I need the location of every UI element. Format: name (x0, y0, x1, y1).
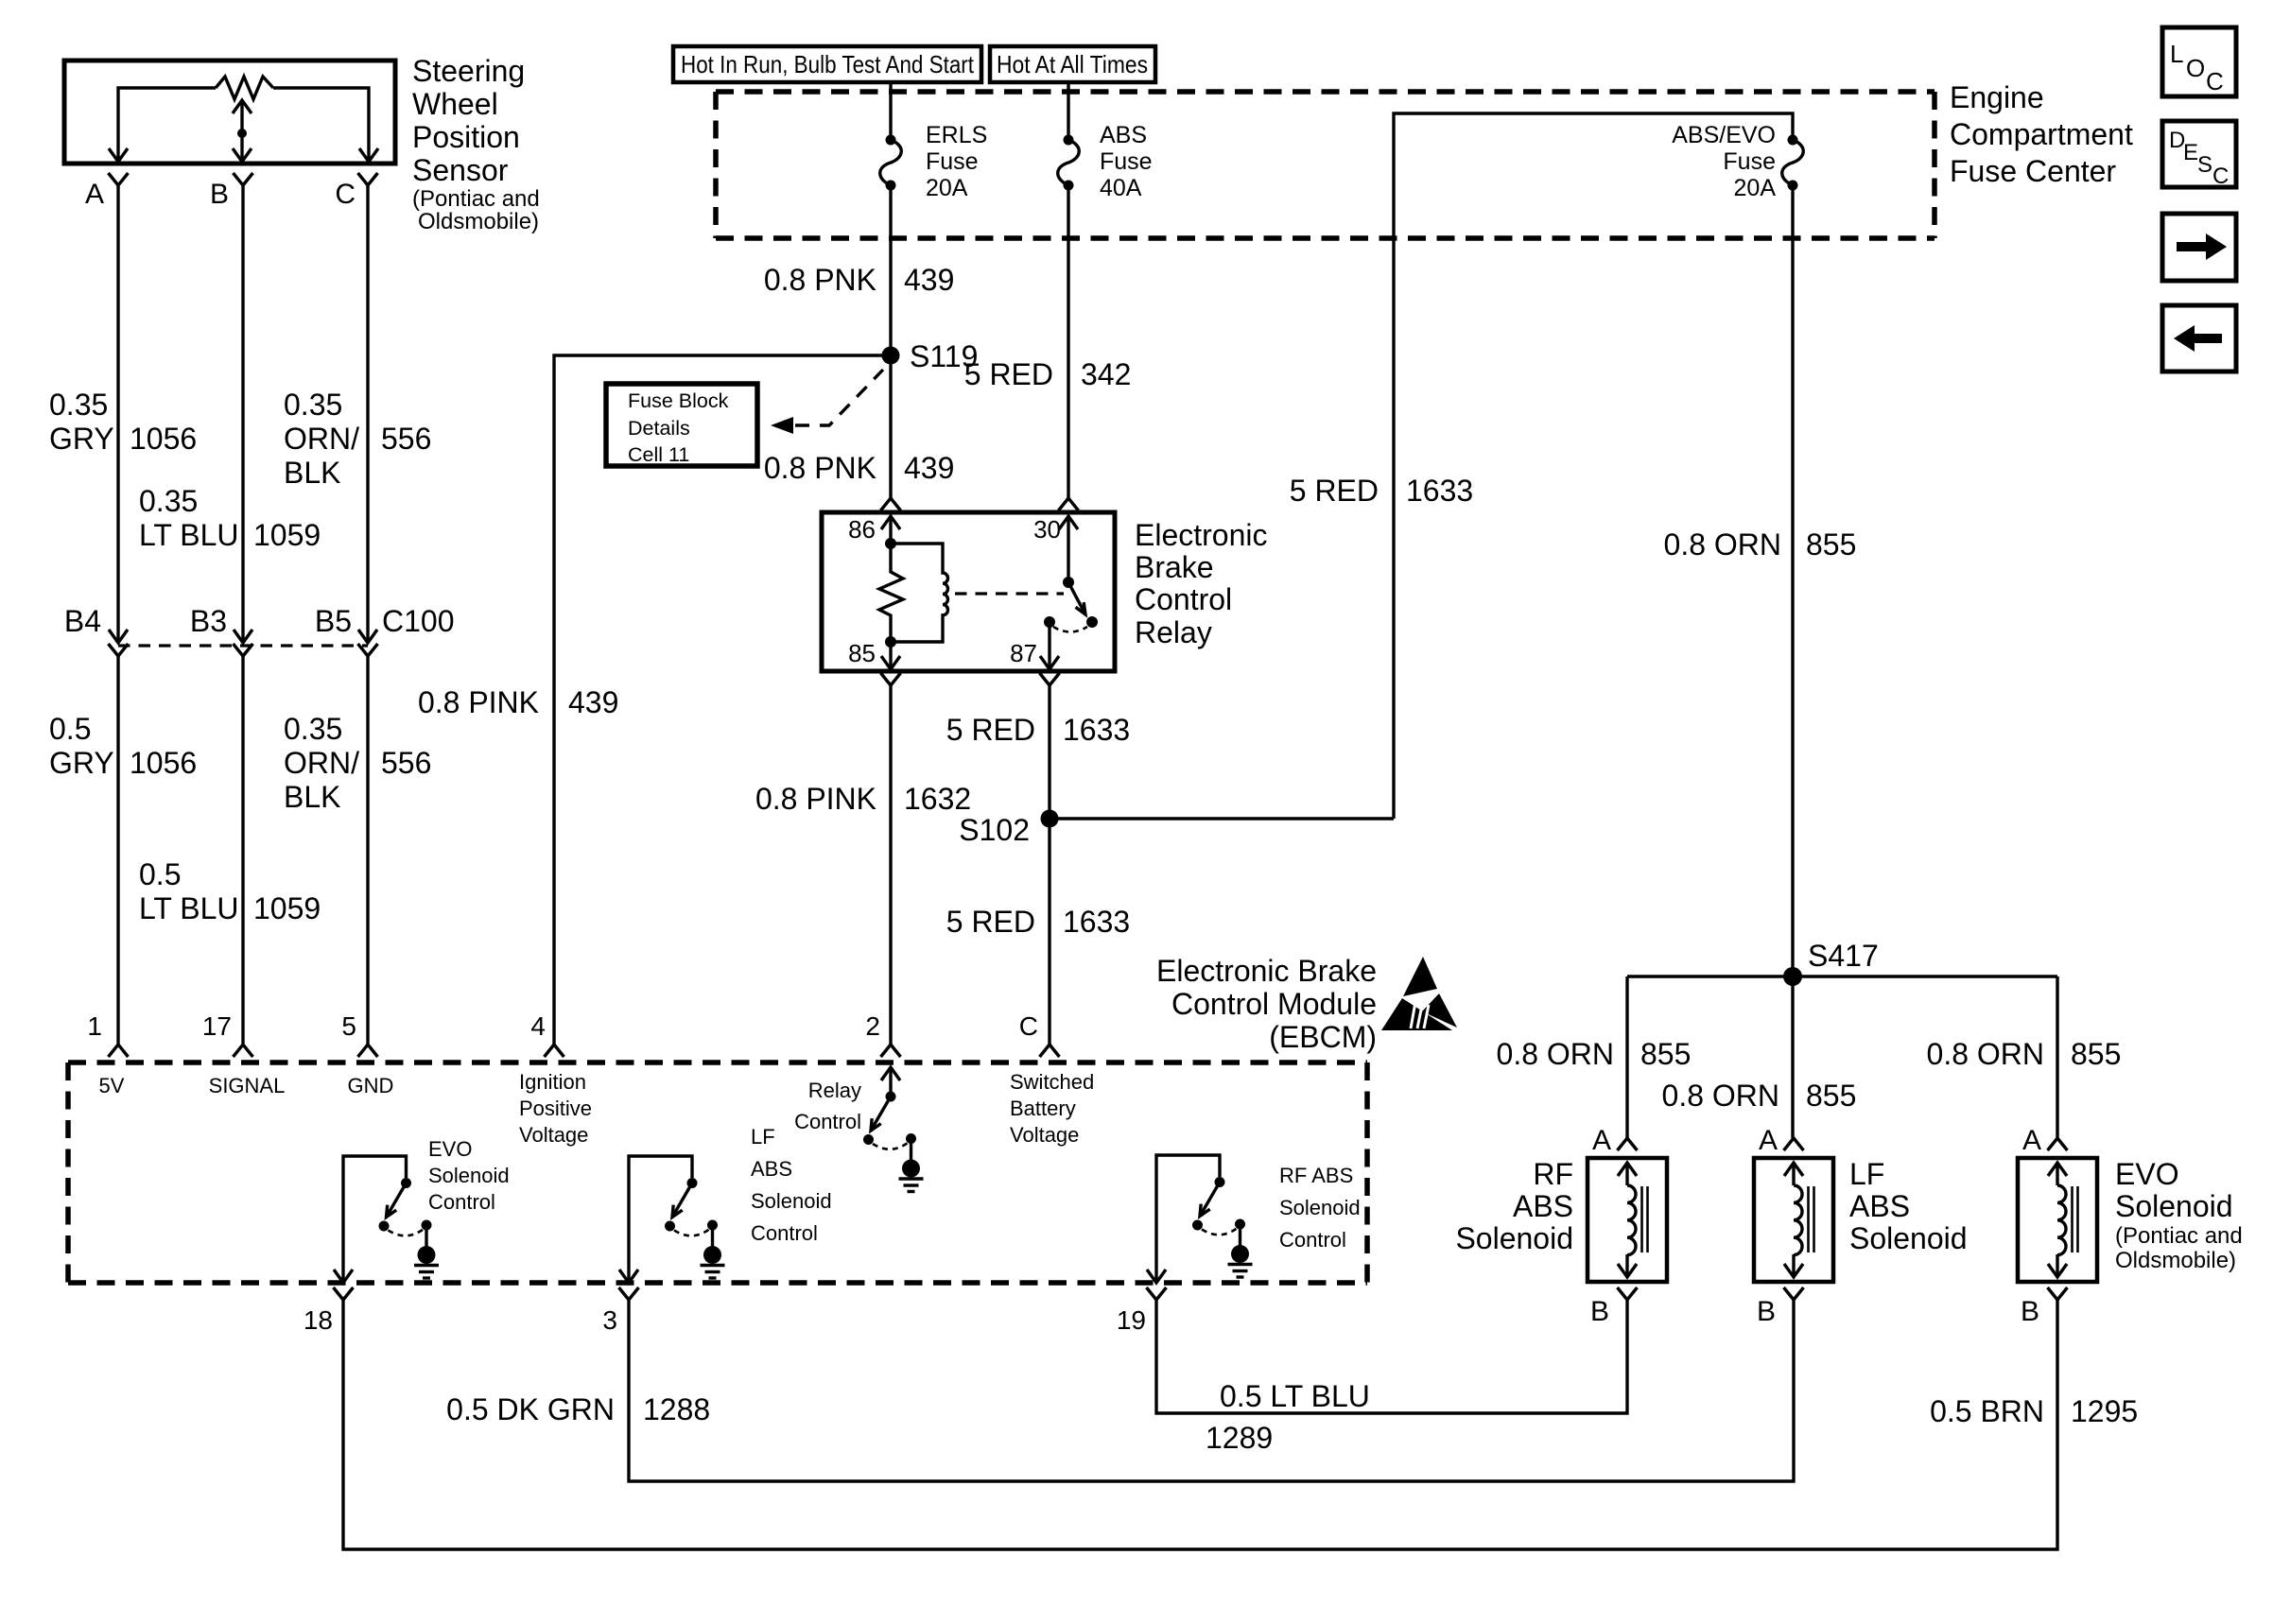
svg-text:2: 2 (865, 1011, 880, 1041)
svg-text:Solenoid: Solenoid (1849, 1221, 1968, 1255)
relay contact travel dashed arc (1053, 627, 1087, 632)
SWPS terminal arrow A (109, 148, 128, 162)
svg-text:Relay: Relay (1135, 615, 1212, 649)
svg-text:0.8 ORN: 0.8 ORN (1497, 1037, 1614, 1071)
wire label 0.8 ORN 855 (LF) (1662, 1079, 1857, 1113)
relay control switch inside EBCM (863, 1067, 924, 1192)
svg-text:Control: Control (1135, 582, 1232, 616)
svg-text:439: 439 (904, 263, 954, 297)
SWPS connector fork A (109, 173, 129, 185)
pin 4 name Ignition Positive Voltage (519, 1070, 592, 1147)
EBCM label text (1156, 954, 1377, 1054)
wire label 0.8 ORN 855 (fuse drop) (1664, 527, 1857, 561)
svg-text:Hot In Run, Bulb Test And Star: Hot In Run, Bulb Test And Start (681, 50, 975, 78)
svg-text:Control: Control (794, 1110, 861, 1133)
wire label 5 RED 1633 (branch) (1290, 474, 1473, 508)
svg-text:Positive: Positive (519, 1097, 592, 1120)
svg-text:0.8 PINK: 0.8 PINK (418, 685, 539, 719)
svg-text:Control: Control (428, 1190, 495, 1214)
svg-text:Solenoid: Solenoid (1455, 1221, 1573, 1255)
EVO solenoid control label (428, 1137, 510, 1214)
EVO solenoid pin A fork (2048, 1138, 2068, 1150)
RF ABS solenoid box (1588, 1158, 1667, 1282)
svg-text:439: 439 (904, 451, 954, 485)
svg-text:1288: 1288 (643, 1392, 710, 1426)
ERLS fuse label (926, 122, 987, 201)
ABS/EVO fuse 20A (1782, 135, 1804, 191)
svg-text:RF: RF (1533, 1157, 1573, 1191)
svg-text:20A: 20A (1734, 175, 1777, 201)
relay label text (1135, 518, 1268, 649)
svg-text:BLK: BLK (284, 456, 340, 490)
svg-text:Details: Details (628, 417, 690, 440)
svg-text:C: C (335, 179, 356, 210)
SWPS wiper arm (233, 100, 252, 162)
svg-text:LF: LF (1849, 1157, 1884, 1191)
ERLS fuse 20A (880, 135, 902, 191)
svg-text:Compartment: Compartment (1950, 117, 2133, 151)
DESC icon box (2162, 121, 2236, 189)
wire label 0.5 GRY 1056 (49, 712, 197, 780)
wire: Hot At All Times feed down to ABS fuse (1067, 82, 1069, 137)
relay pin 85 arrow (881, 642, 900, 669)
svg-text:GRY: GRY (49, 746, 114, 780)
wire: S102 branch to fuse center (1050, 817, 1394, 820)
LF ABS solenoid box (1754, 1158, 1833, 1282)
EVO solenoid label (2115, 1157, 2243, 1273)
wire B arrow at C100 (234, 630, 252, 643)
EVO solenoid pin B fork (2048, 1287, 2068, 1300)
relay control label (794, 1079, 861, 1133)
svg-text:0.8 ORN: 0.8 ORN (1662, 1079, 1779, 1113)
EBCM pin 5 fork (358, 1045, 378, 1057)
svg-text:855: 855 (2071, 1037, 2121, 1071)
svg-text:C100: C100 (382, 604, 455, 638)
wire label 0.8 PNK 439 (upper) (764, 263, 955, 297)
svg-text:855: 855 (1806, 1079, 1856, 1113)
svg-text:SIGNAL: SIGNAL (209, 1074, 286, 1097)
svg-text:B: B (1590, 1296, 1609, 1327)
relay actuation dashed link (955, 592, 1064, 595)
svg-text:GND: GND (348, 1074, 394, 1097)
svg-text:B: B (1757, 1296, 1776, 1327)
svg-text:Electronic Brake: Electronic Brake (1156, 954, 1377, 988)
wire C fork below C100 (358, 644, 378, 656)
pin C name Switched Battery Voltage (1010, 1070, 1094, 1147)
svg-text:30: 30 (1033, 515, 1061, 544)
svg-text:BLK: BLK (284, 780, 340, 814)
svg-text:Steering: Steering (412, 54, 525, 88)
wire: ABS fuse to relay pin 30 (1067, 185, 1069, 498)
svg-text:EVO: EVO (428, 1137, 472, 1161)
svg-text:0.8 ORN: 0.8 ORN (1664, 527, 1781, 561)
RF ABS solenoid control label (1279, 1164, 1361, 1252)
RF solenoid label (1455, 1157, 1573, 1255)
wire: 5 RED 1633 into fuse center to ABS/EVO fuse (1394, 113, 1793, 819)
svg-text:Battery: Battery (1010, 1097, 1076, 1120)
LOC icon box (2162, 27, 2236, 96)
splice S119 (882, 347, 900, 365)
EBCM pin 17 fork (234, 1045, 253, 1057)
wire: ABS/EVO fuse down to S417 and LF solenoid (1791, 185, 1794, 1138)
wire label 0.35 LT BLU 1059 (139, 484, 321, 552)
RF solenoid pin B fork (1618, 1287, 1638, 1300)
wire: EBCM pin 18 to EVO solenoid B (0.5 BRN 1295) (343, 1300, 2057, 1549)
svg-text:ABS/EVO: ABS/EVO (1672, 122, 1776, 148)
svg-text:L: L (2170, 40, 2183, 68)
wire label 0.5 BRN 1295 (1930, 1394, 2138, 1428)
svg-text:Sensor: Sensor (412, 153, 509, 187)
wire label 0.5 LT BLU 1059 (139, 857, 321, 925)
header box: Hot In Run, Bulb Test And Start (673, 46, 981, 82)
svg-text:RF ABS: RF ABS (1279, 1164, 1353, 1187)
relay contact 87 dot (1044, 616, 1055, 628)
relay pin 86 arrow (881, 516, 900, 544)
svg-text:0.8 PNK: 0.8 PNK (764, 451, 876, 485)
ABS fuse label (1100, 122, 1153, 201)
svg-text:5 RED: 5 RED (946, 713, 1035, 747)
relay coil top node (885, 538, 896, 549)
svg-text:40A: 40A (1100, 175, 1142, 201)
right arrow icon box (2162, 214, 2236, 281)
electronic brake control relay box (822, 512, 1115, 671)
engine compartment fuse center label (1950, 80, 2133, 188)
svg-text:87: 87 (1010, 639, 1037, 667)
ABS fuse 40A (1058, 135, 1080, 191)
resistor zigzag (SWPS) (216, 77, 273, 99)
svg-text:0.8 PINK: 0.8 PINK (755, 782, 876, 816)
svg-text:3: 3 (602, 1305, 617, 1335)
svg-text:342: 342 (1081, 357, 1131, 391)
wire: relay pin 85 to EBCM pin 2 (0.8 PINK 1632) (889, 685, 892, 1045)
wire: S417 to EVO solenoid A (2056, 976, 2058, 1138)
wire: 0.8 PINK 439 branch from S119 to EBCM pin 4 (554, 355, 889, 1045)
svg-text:1632: 1632 (904, 782, 971, 816)
LF solenoid pin A fork (1784, 1138, 1804, 1150)
svg-text:Electronic: Electronic (1135, 518, 1268, 552)
svg-text:20A: 20A (926, 175, 968, 201)
svg-text:Solenoid: Solenoid (428, 1164, 510, 1187)
svg-text:C: C (1019, 1011, 1038, 1041)
svg-text:ABS: ABS (1849, 1189, 1910, 1223)
svg-text:1056: 1056 (130, 746, 197, 780)
wire: Hot In Run feed down to ERLS fuse (889, 82, 892, 137)
SWPS terminal arrow B (233, 148, 252, 162)
wire: EBCM pin 3 to LF solenoid B (0.5 DK GRN 1288) (629, 1300, 1794, 1481)
svg-text:LF: LF (751, 1125, 775, 1149)
svg-text:B: B (2021, 1296, 2039, 1327)
relay coil (inductor) (891, 544, 948, 642)
wire label 0.8 ORN 855 (RF) (1497, 1037, 1692, 1071)
LF ABS solenoid control switch (pin 3) (619, 1156, 725, 1283)
svg-text:0.5: 0.5 (139, 857, 181, 891)
svg-text:5V: 5V (99, 1074, 125, 1097)
RF ABS solenoid control switch (pin 19) (1147, 1155, 1253, 1283)
wire label 0.35 ORN/BLK 556 (lower) (284, 712, 431, 814)
wire B (SWPS pin B to EBCM pin 17) (241, 185, 244, 643)
wire label 5 RED 342 (964, 357, 1132, 391)
svg-text:1633: 1633 (1063, 905, 1130, 939)
LF solenoid pin B fork (1784, 1287, 1804, 1300)
svg-text:0.8 PNK: 0.8 PNK (764, 263, 876, 297)
wire C arrow at C100 (358, 630, 377, 643)
wire label 0.8 PINK 1632 (755, 782, 971, 816)
svg-text:18: 18 (304, 1305, 333, 1335)
svg-text:Oldsmobile): Oldsmobile) (418, 209, 539, 234)
EBCM pin 4 fork (545, 1045, 564, 1057)
svg-text:A: A (1592, 1125, 1611, 1156)
svg-text:1059: 1059 (253, 518, 321, 552)
svg-text:1059: 1059 (253, 891, 321, 925)
SWPS terminal arrow C (359, 148, 378, 162)
svg-text:O: O (2186, 54, 2205, 82)
svg-text:ORN/: ORN/ (284, 746, 359, 780)
EBCM pin 3 fork (619, 1287, 639, 1300)
svg-text:Relay: Relay (808, 1079, 861, 1102)
svg-text:1633: 1633 (1063, 713, 1130, 747)
SWPS potentiometer track with resistor (118, 88, 369, 162)
svg-text:C: C (2206, 67, 2224, 95)
wire label 0.35 GRY 1056 (49, 388, 197, 456)
relay switch thrown contact (1086, 616, 1098, 628)
svg-text:B: B (210, 179, 229, 210)
wire: relay pin 87 to S102 to EBCM pin C (5 RED 1633) (1048, 685, 1050, 1045)
engine compartment fuse center dashed box (716, 92, 1935, 238)
EBCM pin 1 fork (109, 1045, 129, 1057)
header box: Hot At All Times (990, 46, 1155, 82)
wire A arrow at C100 (109, 630, 128, 643)
EBCM pin 19 fork (1147, 1287, 1167, 1300)
svg-text:A: A (1759, 1125, 1778, 1156)
relay fork below pin 87 (1040, 673, 1060, 685)
svg-text:Hot At All Times: Hot At All Times (997, 50, 1148, 78)
dashed reference arrow to fuse block details (771, 370, 883, 434)
svg-text:Solenoid: Solenoid (751, 1189, 832, 1213)
wire: ERLS fuse to S119 to relay pin 86 (889, 185, 892, 498)
svg-text:(Pontiac and: (Pontiac and (2115, 1223, 2243, 1249)
RF solenoid pin A fork (1618, 1138, 1638, 1150)
wire: EBCM pin 19 to RF solenoid B (0.5 LT BLU 1289) (1156, 1300, 1627, 1413)
svg-text:Wheel: Wheel (412, 87, 498, 121)
relay pin 30 arrow and common (1059, 516, 1078, 588)
svg-text:1289: 1289 (1206, 1421, 1273, 1455)
svg-text:LT BLU: LT BLU (139, 891, 239, 925)
svg-text:85: 85 (848, 639, 876, 667)
wire label 0.5 LT BLU 1289 (1206, 1379, 1370, 1455)
wire label 5 RED 1633 (below S102) (946, 905, 1130, 939)
svg-text:1295: 1295 (2071, 1394, 2138, 1428)
wire C (SWPS pin C to EBCM pin 5) (366, 185, 369, 643)
svg-text:Cell 11: Cell 11 (628, 443, 689, 466)
wire label 5 RED 1633 (above S102) (946, 713, 1130, 747)
left arrow icon box (2162, 305, 2236, 371)
splice S417 (1783, 967, 1802, 986)
svg-text:0.5: 0.5 (49, 712, 91, 746)
svg-text:0.35: 0.35 (139, 484, 198, 518)
wire B fork below C100 (234, 644, 253, 656)
EVO solenoid box (2018, 1158, 2097, 1282)
svg-text:S417: S417 (1808, 939, 1879, 973)
svg-text:ABS: ABS (1513, 1189, 1573, 1223)
SWPS connector fork B (234, 173, 253, 185)
EBCM dashed box (68, 1063, 1367, 1283)
svg-text:0.35: 0.35 (49, 388, 108, 422)
svg-text:5 RED: 5 RED (964, 357, 1053, 391)
svg-text:LT BLU: LT BLU (139, 518, 239, 552)
svg-text:86: 86 (848, 515, 876, 544)
svg-text:ABS: ABS (1100, 122, 1147, 148)
EBCM pin 18 fork (334, 1287, 354, 1300)
svg-text:ABS: ABS (751, 1157, 792, 1181)
ABS/EVO fuse label (1672, 122, 1776, 201)
svg-text:439: 439 (568, 685, 618, 719)
svg-text:0.35: 0.35 (284, 712, 342, 746)
LF solenoid label (1849, 1157, 1968, 1255)
svg-text:19: 19 (1117, 1305, 1146, 1335)
svg-text:855: 855 (1806, 527, 1856, 561)
svg-text:Fuse: Fuse (1100, 148, 1153, 175)
svg-text:0.5 DK GRN: 0.5 DK GRN (446, 1392, 615, 1426)
svg-text:C: C (2212, 164, 2229, 189)
wire label 0.8 PINK 439 (418, 685, 618, 719)
svg-text:0.8 ORN: 0.8 ORN (1927, 1037, 2044, 1071)
svg-text:556: 556 (381, 746, 431, 780)
splice S102 (1041, 810, 1059, 828)
wire label 0.5 DK GRN 1288 (446, 1392, 710, 1426)
relay pin 87 arrow (1040, 622, 1059, 669)
svg-text:ORN/: ORN/ (284, 422, 359, 456)
EBCM pin 2 fork (881, 1045, 901, 1057)
svg-text:Fuse Center: Fuse Center (1950, 154, 2116, 188)
svg-text:5: 5 (341, 1011, 356, 1041)
svg-text:A: A (2022, 1125, 2041, 1156)
svg-text:ERLS: ERLS (926, 122, 987, 148)
svg-text:(Pontiac and: (Pontiac and (412, 186, 540, 212)
svg-text:S: S (2197, 152, 2212, 178)
SWPS connector fork C (358, 173, 378, 185)
SWPS label text (412, 54, 540, 234)
relay connector fork pin 30 (1059, 498, 1079, 510)
svg-text:Voltage: Voltage (519, 1123, 588, 1147)
wire A (SWPS pin A to EBCM pin 1) (116, 185, 119, 643)
svg-text:5 RED: 5 RED (1290, 474, 1379, 508)
LF ABS solenoid control label (751, 1125, 832, 1245)
svg-text:E: E (2183, 140, 2198, 165)
svg-text:Engine: Engine (1950, 80, 2044, 114)
relay resistor (879, 544, 903, 642)
svg-text:17: 17 (202, 1011, 232, 1041)
svg-text:0.5 LT BLU: 0.5 LT BLU (1220, 1379, 1370, 1413)
svg-text:1056: 1056 (130, 422, 197, 456)
svg-text:5 RED: 5 RED (946, 905, 1035, 939)
wire label 0.8 PNK 439 (lower) (764, 451, 955, 485)
svg-text:S102: S102 (959, 813, 1030, 847)
svg-text:B4: B4 (64, 604, 101, 638)
svg-text:A: A (85, 179, 104, 210)
steering wheel position sensor box (64, 60, 395, 164)
svg-text:Switched: Switched (1010, 1070, 1094, 1094)
svg-text:B3: B3 (190, 604, 227, 638)
svg-text:GRY: GRY (49, 422, 114, 456)
fuse block details box (606, 384, 757, 466)
svg-text:Oldsmobile): Oldsmobile) (2115, 1248, 2236, 1273)
svg-text:Fuse: Fuse (926, 148, 979, 175)
svg-text:Ignition: Ignition (519, 1070, 586, 1094)
connector C100 dashed line (118, 644, 368, 647)
relay connector fork pin 86 (881, 498, 901, 510)
svg-text:Position: Position (412, 120, 520, 154)
relay coil bottom node (885, 636, 896, 648)
svg-text:EVO: EVO (2115, 1157, 2179, 1191)
svg-text:Fuse: Fuse (1723, 148, 1776, 175)
wire label 0.35 ORN/BLK 556 (284, 388, 431, 490)
svg-text:Control: Control (751, 1221, 818, 1245)
svg-text:Voltage: Voltage (1010, 1123, 1079, 1147)
svg-text:0.5 BRN: 0.5 BRN (1930, 1394, 2044, 1428)
wire: S417 horizontal branch (1627, 975, 2057, 977)
svg-text:Fuse Block: Fuse Block (628, 389, 729, 412)
svg-text:(EBCM): (EBCM) (1269, 1020, 1377, 1054)
svg-text:Solenoid: Solenoid (2115, 1189, 2233, 1223)
ESD sensitivity symbol (1381, 957, 1457, 1030)
svg-text:1: 1 (87, 1011, 102, 1041)
svg-text:Solenoid: Solenoid (1279, 1196, 1361, 1219)
svg-text:4: 4 (530, 1011, 546, 1041)
wire: S417 to RF solenoid A (1625, 976, 1628, 1138)
svg-text:1633: 1633 (1406, 474, 1473, 508)
svg-text:Brake: Brake (1135, 550, 1214, 584)
svg-text:Control: Control (1279, 1228, 1346, 1252)
EBCM pin C fork (1040, 1045, 1060, 1057)
svg-text:556: 556 (381, 422, 431, 456)
svg-text:0.35: 0.35 (284, 388, 342, 422)
svg-text:855: 855 (1640, 1037, 1691, 1071)
svg-text:B5: B5 (315, 604, 352, 638)
relay fork below pin 85 (881, 673, 901, 685)
svg-text:Control Module: Control Module (1171, 987, 1377, 1021)
relay switch blade (1068, 582, 1085, 614)
EVO solenoid control switch (pin 18) (334, 1156, 439, 1283)
wire label 0.8 ORN 855 (EVO) (1927, 1037, 2122, 1071)
wire A fork below C100 (109, 644, 129, 656)
